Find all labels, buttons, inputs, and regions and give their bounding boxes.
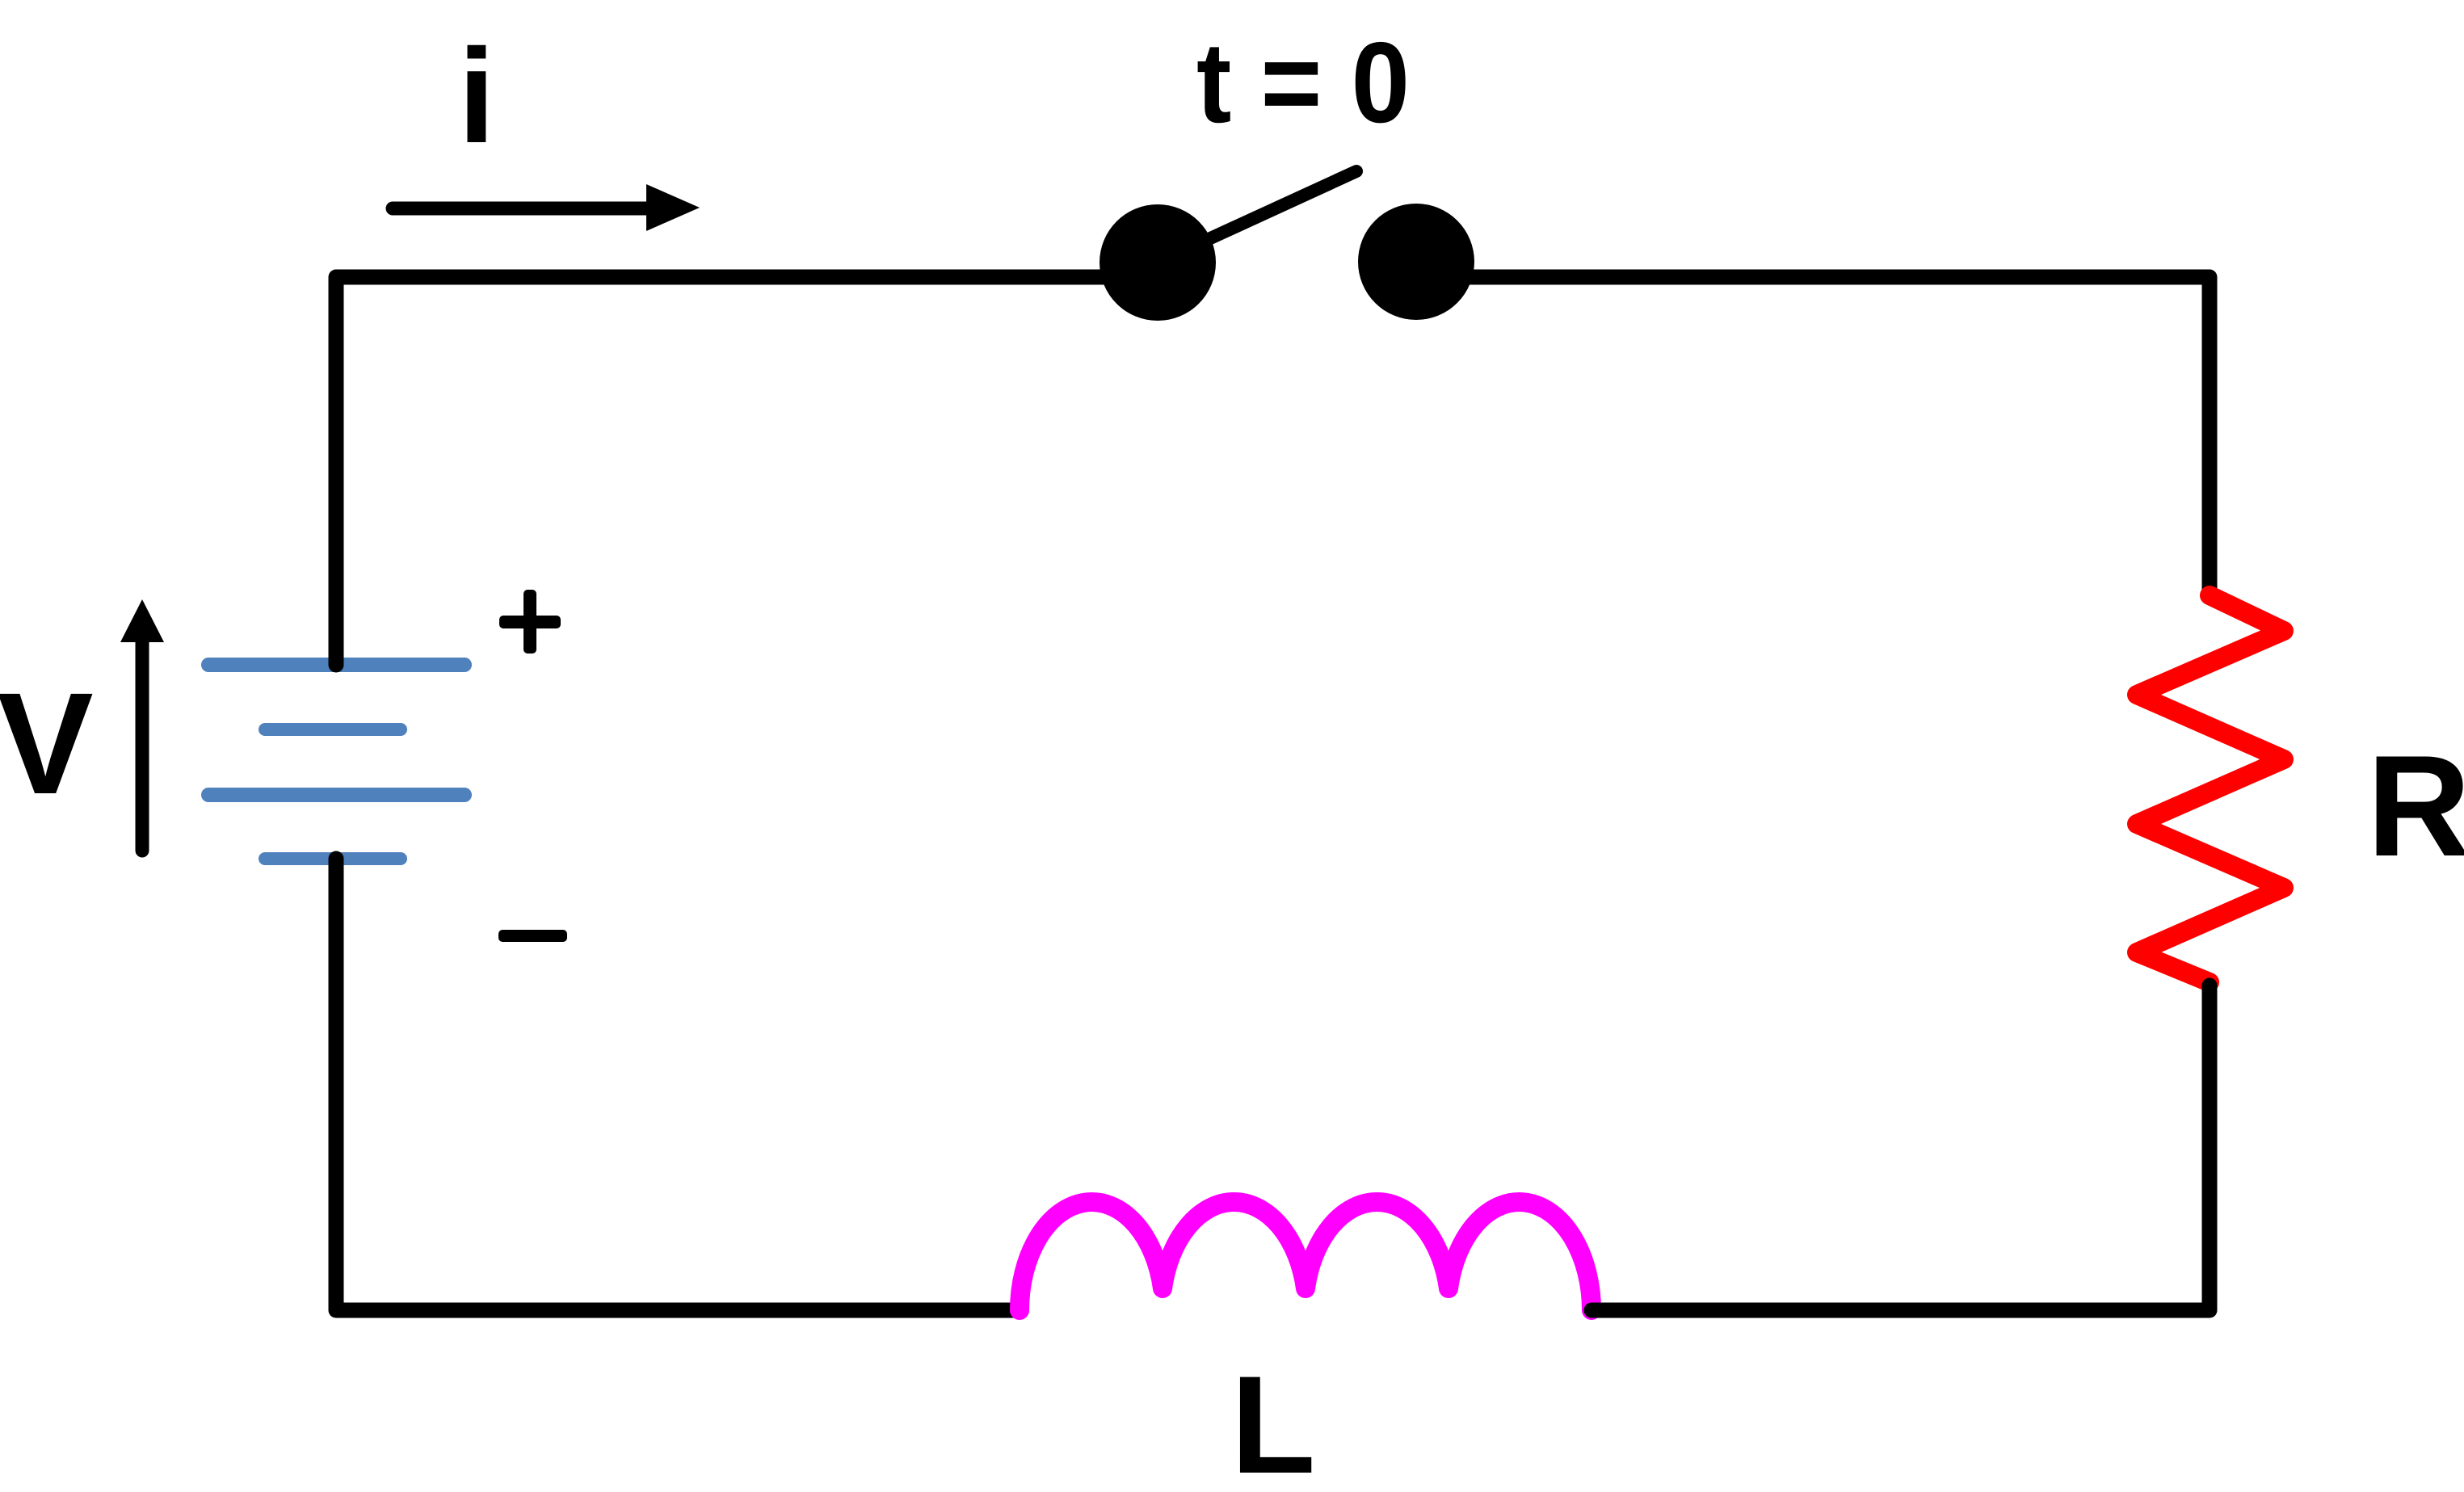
svg-text:i: i — [458, 22, 495, 171]
switch left contact dot — [1100, 204, 1216, 321]
svg-text:V: V — [0, 662, 94, 824]
current direction arrow — [393, 184, 700, 231]
battery - sign — [498, 930, 567, 942]
battery plate 1 (long, +) — [208, 658, 465, 672]
svg-text:R: R — [2367, 725, 2464, 886]
switch right contact dot — [1358, 204, 1474, 320]
wire: resistor bottom to bottom-right corner, left to inductor right end — [1592, 986, 2210, 1310]
svg-text:t = 0: t = 0 — [1196, 19, 1410, 147]
switch lever arm — [1158, 171, 1356, 263]
battery plate 4 (short, -) — [265, 852, 401, 865]
voltage arrow V (upward) — [120, 599, 164, 851]
resistor R (red zigzag) — [2137, 595, 2284, 982]
wire: switch right terminal to top-right corner, down to resistor top — [1416, 277, 2210, 595]
inductor L (magenta coil) — [1020, 1202, 1592, 1310]
battery + sign — [499, 590, 561, 654]
wire: battery + terminal up to top-left corner, right to switch left terminal — [336, 277, 1158, 665]
battery plate 3 (long) — [208, 788, 465, 802]
wire: inductor left end to bottom-left corner, up to battery - terminal — [336, 859, 1020, 1310]
svg-text:L: L — [1230, 1347, 1315, 1492]
battery plate 2 (short) — [265, 723, 401, 736]
